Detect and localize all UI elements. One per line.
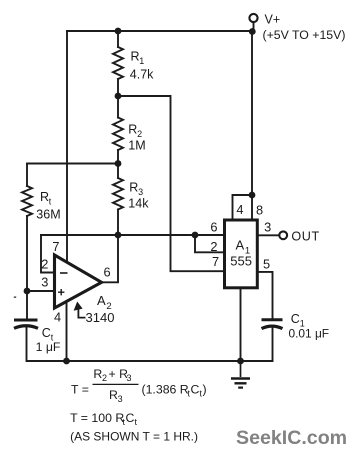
terminal OUT [279, 231, 287, 239]
svg-text:): ) [203, 382, 207, 396]
svg-text:3140: 3140 [86, 310, 115, 325]
node op-amp pin3 [24, 288, 31, 295]
capacitor Ct plates [14, 319, 38, 322]
node 555 pin2/6 tie [192, 232, 199, 239]
svg-text:3: 3 [127, 373, 132, 383]
svg-text:(AS SHOWN T = 1 HR.): (AS SHOWN T = 1 HR.) [70, 429, 198, 443]
op-amp programmable arrow [78, 308, 85, 318]
svg-text:5: 5 [263, 256, 270, 271]
wire R2 top lead [117, 96, 119, 118]
svg-text:A: A [97, 293, 106, 308]
svg-text:1 μF: 1 μF [36, 340, 61, 354]
wire C1 top lead to 555 pin5 [258, 272, 273, 319]
op-amp minus input mark [60, 272, 68, 274]
svg-text:T = 100 R: T = 100 R [70, 411, 124, 425]
svg-text:3: 3 [118, 394, 123, 404]
node 4-8 tie [249, 192, 256, 199]
svg-text:R: R [40, 190, 49, 204]
svg-text:2: 2 [41, 257, 48, 272]
svg-text:+ R: + R [109, 367, 129, 381]
node R2/R3 [115, 160, 122, 167]
svg-text:6: 6 [210, 219, 217, 234]
svg-text:C: C [42, 326, 51, 340]
wire R2/R3 junction to Rt top [27, 163, 118, 165]
svg-text:A: A [236, 237, 245, 252]
resistor R3 [113, 178, 123, 210]
svg-text:SeekIC.com: SeekIC.com [236, 427, 347, 449]
wire node to Ct top [26, 291, 28, 319]
svg-text:4.7k: 4.7k [130, 68, 154, 82]
svg-text:0.01 μF: 0.01 μF [289, 327, 330, 341]
terminal V+ [249, 14, 257, 22]
svg-text:R: R [128, 123, 137, 137]
svg-text:14k: 14k [128, 196, 149, 210]
node R3/threshold [115, 232, 122, 239]
wire threshold net to 555 pin6 [41, 234, 224, 236]
op-amp plus input mark [58, 289, 64, 295]
ground [231, 361, 250, 388]
wire R1 top lead [117, 31, 119, 47]
svg-text:4: 4 [54, 309, 61, 324]
node R1 top [115, 28, 122, 35]
svg-text:6: 6 [104, 264, 111, 279]
svg-text:8: 8 [256, 203, 263, 218]
svg-text:4: 4 [236, 202, 243, 217]
svg-text:1M: 1M [128, 139, 145, 153]
wire 555 pins 4-8 bracket [233, 195, 253, 220]
svg-text:1: 1 [139, 56, 144, 66]
svg-text:(1.386 R: (1.386 R [142, 382, 189, 396]
wire Ct bottom to ground rail [26, 327, 28, 361]
wire V+ drop to 555 [251, 32, 253, 221]
IC A1 555 box [225, 220, 258, 288]
wire R3 top lead [117, 164, 119, 179]
svg-text:2: 2 [210, 239, 217, 254]
svg-text:3: 3 [264, 219, 271, 234]
svg-text:V+: V+ [265, 13, 281, 27]
wire ground rail [27, 360, 273, 362]
svg-text:7: 7 [52, 239, 59, 254]
wire op-amp output feedback [102, 235, 119, 282]
wire Rt bottom lead to pin3 node [26, 216, 28, 291]
svg-text:3: 3 [41, 275, 48, 290]
wire 555 pin3 to OUT [258, 234, 280, 236]
resistor Rt [22, 186, 32, 216]
wire V+ terminal stub [253, 22, 255, 32]
node op-amp pin4 ground [63, 358, 70, 365]
wire C1 bottom lead [272, 327, 274, 361]
wire op-amp pin2 riser [41, 235, 55, 273]
svg-text:7: 7 [212, 254, 219, 269]
wire R3 bottom lead [117, 210, 119, 236]
svg-text:R: R [129, 180, 138, 194]
wire R1/R2 junction to 555 pin7 [118, 96, 224, 271]
svg-text:C: C [291, 312, 300, 326]
op-amp U A2 triangle [55, 255, 102, 308]
svg-text:C: C [191, 382, 200, 396]
node R1/R2 [115, 93, 122, 100]
capacitor C1 plates [262, 318, 283, 321]
speck near pin3 [14, 296, 16, 298]
resistor R1 [113, 47, 123, 79]
svg-text:T =: T = [71, 382, 89, 396]
svg-text:(+5V TO +15V): (+5V TO +15V) [263, 28, 346, 42]
wire op-amp pin4 drop [66, 301, 68, 361]
wire R1 bottom lead [117, 79, 119, 96]
svg-text:C: C [126, 411, 135, 425]
wire R2 bottom lead [117, 150, 119, 164]
svg-text:2: 2 [137, 129, 142, 139]
wire left vertical to op-amp pin7 [66, 31, 68, 262]
node V+ rail [249, 28, 256, 35]
svg-text:555: 555 [230, 253, 252, 268]
svg-text:OUT: OUT [291, 230, 319, 244]
wire top rail V+ [67, 30, 253, 32]
wire 555 pin2 drop [195, 235, 224, 252]
wire Rt top lead [26, 164, 28, 187]
wire op-amp pin3 [27, 290, 55, 292]
node 555 pin1 ground [237, 358, 244, 365]
wire 555 pin1 drop [240, 288, 242, 362]
svg-text:3: 3 [138, 187, 143, 197]
resistor R2 [113, 118, 123, 151]
svg-text:36M: 36M [36, 207, 60, 221]
svg-text:2: 2 [102, 373, 107, 383]
svg-text:R: R [131, 50, 140, 64]
